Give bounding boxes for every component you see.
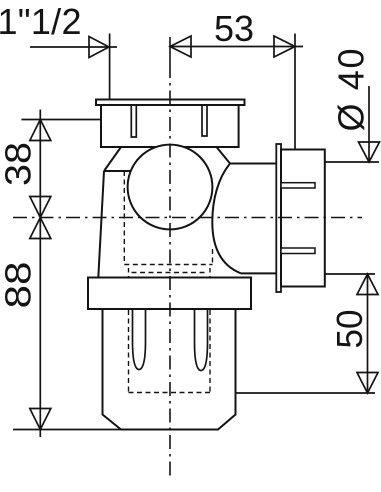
dim 50 top extension line [325,273,375,275]
outlet flange [276,144,281,292]
outlet body [281,150,325,287]
cup body [103,309,236,430]
collar nut [88,278,251,310]
body left edge [98,171,104,278]
outlet tab upper [281,183,315,188]
hidden shoulder dashed [124,264,212,266]
inlet nut body [101,105,239,147]
hidden tube lower-right dashed [209,310,211,393]
dim 50 line [367,274,369,393]
svg-text:Ø 40: Ø 40 [331,49,372,132]
hidden tube bottom dashed [129,392,211,394]
dim 53 right arrow [274,36,295,57]
dim 53 line [170,46,303,48]
hidden tube lower-left dashed stub [128,268,130,277]
svg-text:1"1/2: 1"1/2 [0,1,82,42]
dim 1"1/2 extension line [109,34,111,100]
dim 38 top arrow [30,120,51,141]
body fillet curve [212,164,241,274]
dim 1"1/2 leader line [30,46,117,48]
hidden tube lower-left dashed [128,310,130,393]
dim 88 bottom arrow [30,409,51,430]
svg-text:88: 88 [0,262,39,309]
dim 53 left arrow [170,36,191,57]
dim diam40 arrow [359,142,380,162]
nut slot right [202,105,207,136]
dim 50 bottom arrow [357,373,378,394]
dim 38 top extension line [21,119,101,121]
cup rib left [133,309,146,370]
body right slant [217,147,231,164]
hidden tube neck dashed [132,272,208,274]
dim 53 right extension line [294,34,296,150]
outlet pipe bottom edge [241,272,276,274]
svg-text:53: 53 [214,8,254,49]
body left slant [104,147,121,171]
dim bowtie upper arrow [30,197,51,218]
dim bowtie lower arrow [30,218,51,239]
dim 38-88 vertical line [39,110,41,438]
cup rib right [195,309,208,371]
dim 1"1/2 arrow [89,37,109,58]
nut slot left [131,105,136,137]
svg-text:50: 50 [329,310,370,349]
hidden tube right dashed [212,249,214,265]
dim 88 bottom extension line [13,429,121,431]
dim diam40 line [368,86,370,162]
inlet nut top plate [96,100,245,106]
body left shelf [104,170,131,172]
dim 50 bottom extension line [236,392,376,394]
vertical centerline [169,37,171,64]
horizontal centerline [13,217,362,219]
hidden tube lower-right dashed stub [209,268,211,277]
dim diam40 extension line [325,161,379,163]
outlet pipe top edge [230,163,276,165]
outlet tab lower [281,248,315,254]
ball circle [128,145,213,230]
dim 50 top arrow [357,274,378,295]
svg-text:38: 38 [0,142,39,186]
hidden tube left dashed [123,171,125,265]
